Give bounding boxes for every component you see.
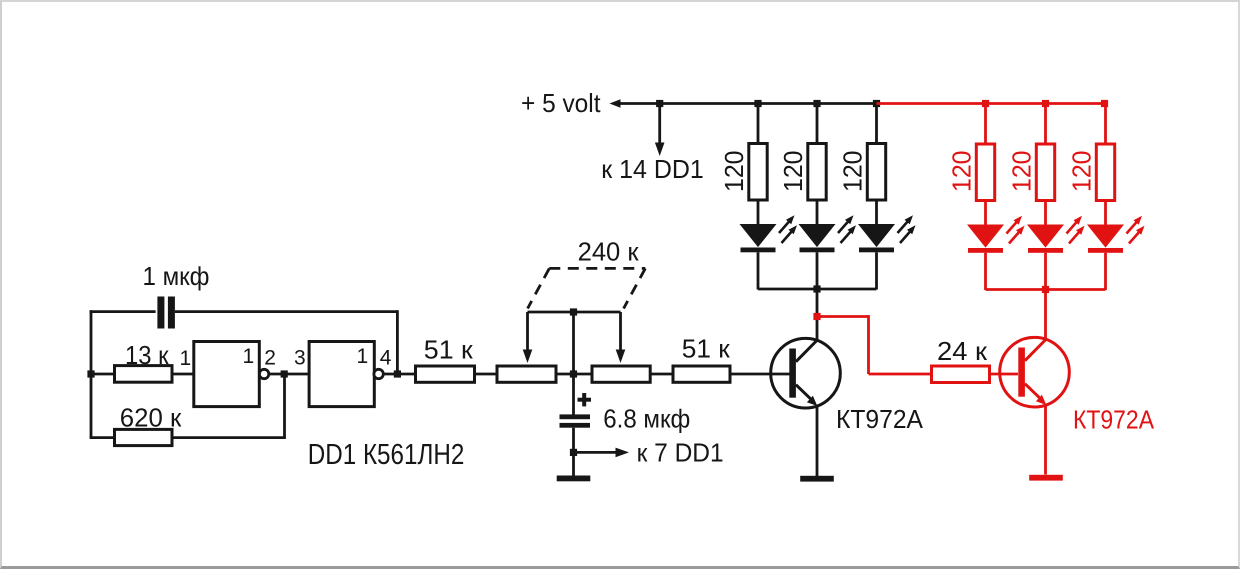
wire bus to Q1 collector xyxy=(816,289,819,340)
240k dashed callout xyxy=(528,268,646,308)
svg-text:24 к: 24 к xyxy=(937,336,988,366)
variable resistor R5 xyxy=(592,366,650,382)
wire bus to Q2 collector xyxy=(1044,290,1047,340)
svg-text:2: 2 xyxy=(264,347,276,370)
variable resistor R4 xyxy=(497,366,556,382)
svg-text:3: 3 xyxy=(294,347,306,370)
rail nodes xyxy=(754,100,761,107)
svg-text:51 к: 51 к xyxy=(682,334,731,364)
svg-text:КТ972А: КТ972А xyxy=(836,404,924,434)
resistor 120 + LED VD1 column xyxy=(740,104,798,290)
node wiper xyxy=(570,308,577,315)
svg-text:51 к: 51 к xyxy=(424,335,474,365)
svg-text:DD1 К561ЛН2: DD1 К561ЛН2 xyxy=(308,439,465,471)
wire center vertical xyxy=(572,312,575,415)
resistor 120 + LED VD6 column xyxy=(1087,104,1145,290)
svg-text:120: 120 xyxy=(1067,151,1097,193)
node bus center xyxy=(813,285,820,292)
wire red LED bus xyxy=(986,288,1106,291)
wire feedback drop xyxy=(396,310,399,374)
node Q1 collector tap xyxy=(813,313,820,320)
C2 plus sign xyxy=(578,393,592,406)
resistor R3 51 к xyxy=(416,366,475,382)
resistor R2 620 к xyxy=(115,429,173,445)
node red bus center xyxy=(1042,286,1049,293)
wire 620k right xyxy=(172,436,285,439)
wire R6 to Q1 base xyxy=(730,373,790,376)
wire R7 to Q2 base xyxy=(990,373,1019,376)
node C xyxy=(394,370,401,377)
svg-text:120: 120 xyxy=(778,151,808,193)
svg-text:120: 120 xyxy=(719,151,749,193)
svg-text:4: 4 xyxy=(380,347,392,370)
arrow к 14 DD1 xyxy=(658,104,661,146)
wire C2 to ground xyxy=(572,428,575,476)
rail arrow xyxy=(610,99,621,108)
svg-text:240 к: 240 к xyxy=(578,236,640,266)
wire feedback top left xyxy=(90,310,156,313)
svg-text:1: 1 xyxy=(243,345,255,368)
capacitor C2 6.8 мкф xyxy=(560,414,591,427)
wire R4-R5 xyxy=(556,373,592,376)
ground xyxy=(557,476,591,482)
red rail nodes xyxy=(982,100,989,107)
resistor 120 + LED VD5 column xyxy=(1027,104,1085,290)
svg-text:120: 120 xyxy=(947,151,977,193)
wire +5V rail (black part) xyxy=(620,102,878,105)
240k wiper bar xyxy=(528,311,621,314)
wire node to R1 xyxy=(91,373,115,376)
wire +5V rail (red part) xyxy=(877,102,1106,105)
node B xyxy=(281,370,288,377)
wire LED bus xyxy=(758,288,877,291)
wire 620k rise xyxy=(283,374,286,439)
node к 14 DD1 branch xyxy=(656,100,663,107)
svg-text:120: 120 xyxy=(1007,151,1037,193)
resistor 120 + LED VD4 column xyxy=(967,104,1025,290)
svg-text:КТ972А: КТ972А xyxy=(1073,405,1155,435)
wire gate2 out xyxy=(383,373,415,376)
arrow к 7 DD1 xyxy=(574,451,619,454)
svg-text:1 мкф: 1 мкф xyxy=(143,261,210,291)
wire Q1 emitter down xyxy=(816,406,819,476)
svg-text:6.8 мкф: 6.8 мкф xyxy=(603,404,690,434)
transistor Q2 KT972A xyxy=(1000,337,1070,407)
resistor 120 + LED VD2 column xyxy=(799,104,857,290)
svg-text:к 7 DD1: к 7 DD1 xyxy=(637,438,724,468)
svg-text:13 к: 13 к xyxy=(125,340,169,370)
wire feedback top right xyxy=(175,310,398,313)
node A xyxy=(87,370,94,377)
wire R5-R6 xyxy=(650,373,673,376)
wire R3-R4 xyxy=(475,373,498,376)
wire gate1 out xyxy=(269,373,309,376)
wire left vertical xyxy=(90,310,93,437)
resistor 120 + LED VD3 column xyxy=(858,104,916,290)
svg-text:+ 5 volt: + 5 volt xyxy=(521,88,601,118)
node к 7 DD1 branch xyxy=(570,449,577,456)
svg-text:к 14 DD1: к 14 DD1 xyxy=(601,154,704,184)
svg-text:620 к: 620 к xyxy=(120,402,182,432)
inverter DD1.1 xyxy=(194,342,259,407)
svg-text:1: 1 xyxy=(180,347,192,370)
wire tap elbow xyxy=(817,315,869,318)
resistor R7 24 к xyxy=(932,366,990,383)
capacitor C1 1 мкф xyxy=(157,297,175,329)
resistor R6 51 к xyxy=(673,366,730,382)
svg-text:120: 120 xyxy=(838,151,868,193)
wire 620k left xyxy=(90,436,115,439)
ground Q1 xyxy=(800,476,834,482)
ground Q2 xyxy=(1029,475,1063,481)
wire Q2 emitter down xyxy=(1044,405,1047,475)
wiper arrow left xyxy=(526,312,529,353)
svg-text:1: 1 xyxy=(357,345,369,368)
wire R1 to gate xyxy=(172,373,194,376)
wiper arrow right xyxy=(619,312,622,353)
resistor R1 13 к xyxy=(115,366,173,383)
node main xyxy=(570,370,577,377)
inverter DD1.2 xyxy=(309,342,374,407)
transistor Q1 KT972A xyxy=(771,338,841,408)
